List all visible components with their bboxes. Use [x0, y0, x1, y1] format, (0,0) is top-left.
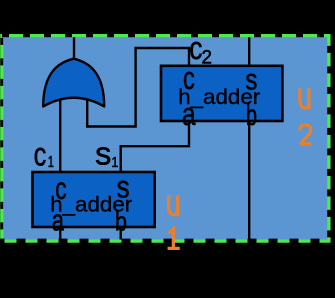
svg-text:b: b: [115, 206, 127, 236]
svg-text:b: b: [246, 99, 257, 132]
svg-text:2: 2: [202, 48, 213, 69]
svg-text:1: 1: [48, 154, 54, 171]
svg-text:s: s: [95, 135, 111, 171]
svg-text:c: c: [34, 137, 47, 174]
svg-text:a: a: [182, 96, 196, 132]
svg-text:a: a: [52, 204, 64, 238]
